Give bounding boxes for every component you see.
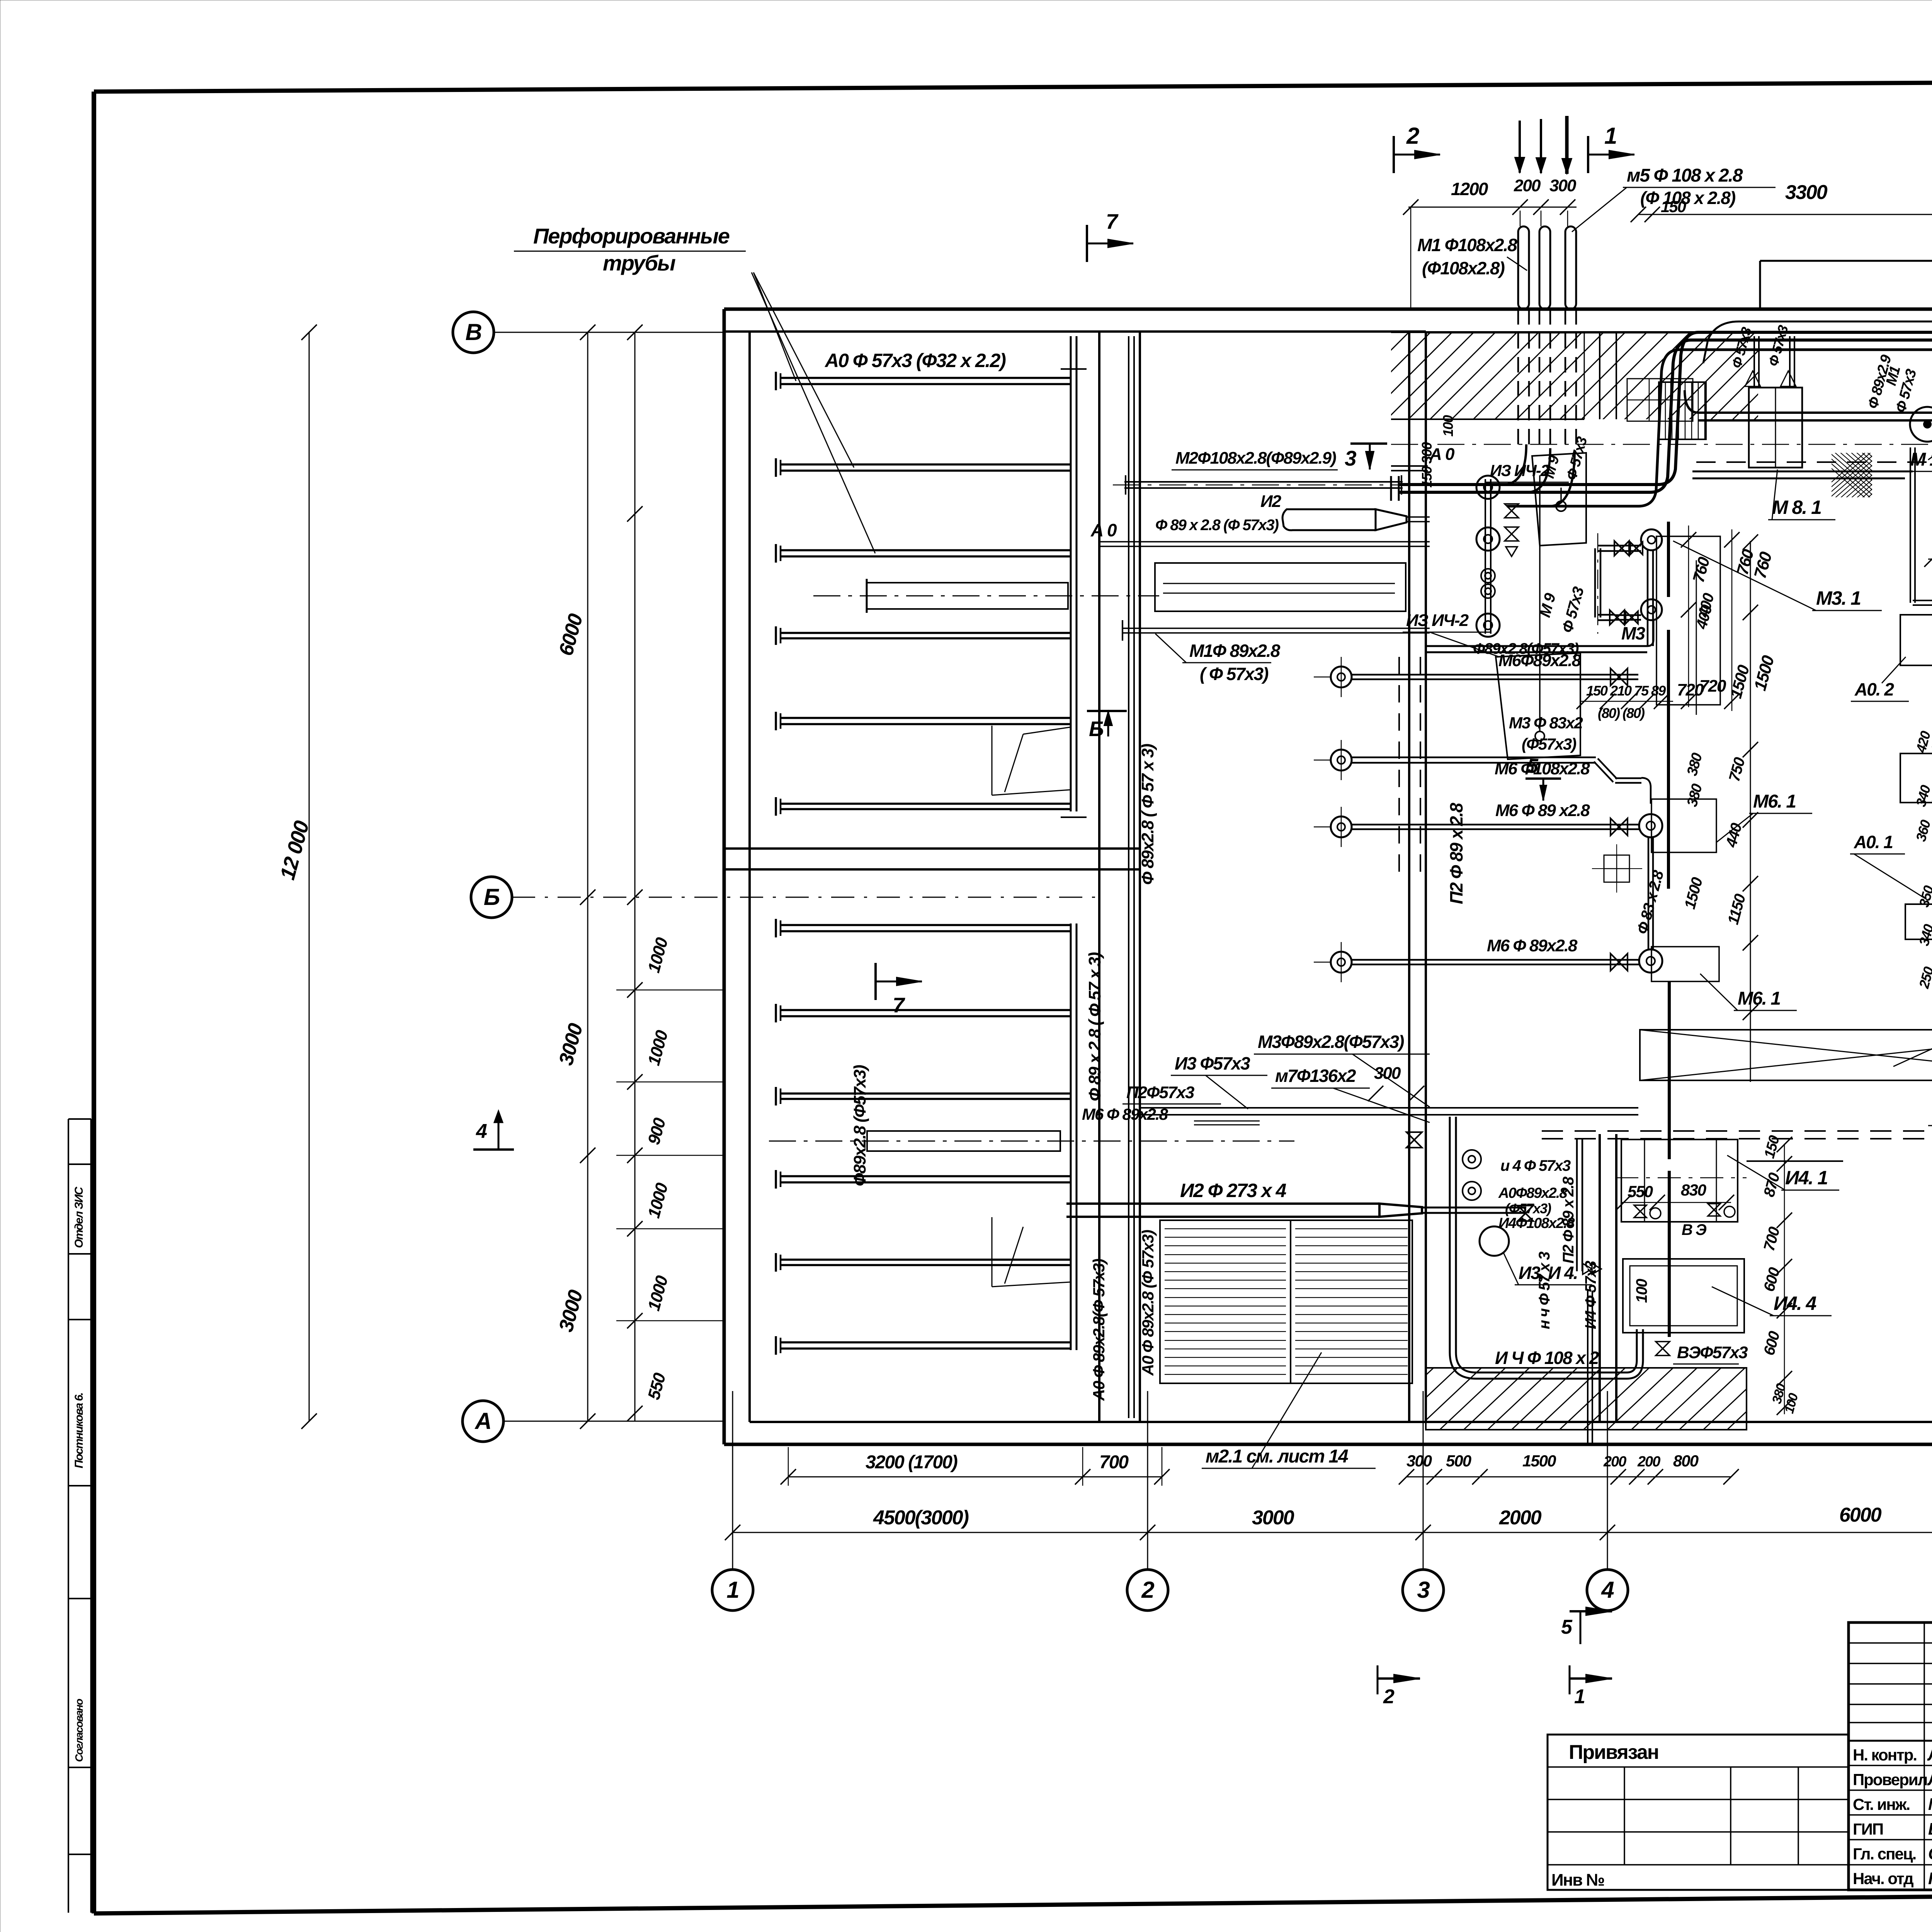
svg-text:М3Ф89х2.8(Ф57х3): М3Ф89х2.8(Ф57х3) bbox=[1258, 1032, 1404, 1052]
П2 drop pipe bbox=[1576, 1139, 1578, 1271]
М6 vertical pipe bbox=[1648, 837, 1650, 951]
svg-text:А0 Ф 89х2.8(Ф 57х3): А0 Ф 89х2.8(Ф 57х3) bbox=[1090, 1259, 1108, 1401]
М6.1 box upper bbox=[1651, 799, 1716, 852]
svg-text:(Ф 108 х 2.8): (Ф 108 х 2.8) bbox=[1640, 188, 1735, 208]
riser U-bends bbox=[1503, 444, 1526, 485]
svg-text:800: 800 bbox=[1673, 1452, 1699, 1470]
svg-text:550: 550 bbox=[644, 1371, 669, 1401]
svg-text:М3 Ф 83х2: М3 Ф 83х2 bbox=[1509, 714, 1583, 732]
svg-text:1500: 1500 bbox=[1726, 663, 1753, 700]
svg-text:1500: 1500 bbox=[1522, 1452, 1556, 1470]
М1.1 pump left circle bbox=[1910, 407, 1932, 442]
svg-text:И4. 4: И4. 4 bbox=[1774, 1293, 1816, 1314]
svg-text:100: 100 bbox=[1633, 1279, 1650, 1303]
axis А line bbox=[503, 1421, 724, 1422]
svg-text:440: 440 bbox=[1723, 821, 1745, 850]
wall hatch grid piece bbox=[1627, 379, 1693, 421]
top dim chain 3300 bbox=[1638, 214, 1932, 215]
svg-text:ГИП: ГИП bbox=[1853, 1820, 1883, 1838]
left attach table bbox=[1548, 1735, 1849, 1890]
cluster valves bbox=[1505, 504, 1519, 518]
И4.4 box bbox=[1623, 1259, 1744, 1333]
М3 valves bbox=[1614, 541, 1629, 556]
svg-text:И4Ф108х2.8: И4Ф108х2.8 bbox=[1498, 1215, 1575, 1231]
svg-text:150 210 75 89: 150 210 75 89 bbox=[1586, 683, 1666, 699]
axis 4 circle bbox=[1587, 1570, 1628, 1611]
svg-text:6000: 6000 bbox=[1839, 1504, 1882, 1526]
svg-text:1200: 1200 bbox=[1451, 179, 1488, 199]
bottom hatch strip middle bbox=[1426, 1368, 1747, 1430]
М9 thin pipe bbox=[1539, 475, 1541, 732]
lower tank perforated pipes bbox=[781, 930, 1070, 932]
section flag 1 top bbox=[1587, 136, 1589, 173]
svg-text:Согласовано: Согласовано bbox=[73, 1699, 85, 1762]
svg-text:М1Ф 89х2.8: М1Ф 89х2.8 bbox=[1189, 641, 1281, 661]
svg-text:трубы: трубы bbox=[603, 251, 675, 275]
svg-text:(80) (80): (80) (80) bbox=[1598, 705, 1645, 721]
vertical pipe along wall2 bbox=[1128, 336, 1129, 1418]
svg-text:П2 Ф 89 х 2.8: П2 Ф 89 х 2.8 bbox=[1446, 803, 1466, 904]
svg-text:Отдел ЗИС: Отдел ЗИС bbox=[73, 1186, 85, 1248]
bottom wall bbox=[724, 1443, 1932, 1446]
tank divider wall vertical bbox=[1098, 332, 1100, 1422]
svg-text:М 8. 1: М 8. 1 bbox=[1772, 497, 1821, 518]
svg-text:А0 Ф 89х2.8 (Ф 57х3): А0 Ф 89х2.8 (Ф 57х3) bbox=[1139, 1230, 1157, 1376]
section flag 4 left bbox=[473, 1148, 514, 1151]
axis Б circle bbox=[471, 877, 512, 918]
axis В line bbox=[494, 332, 724, 333]
svg-text:Ф 83 х 2.8: Ф 83 х 2.8 bbox=[1634, 868, 1667, 936]
axis4 wall upper bbox=[1599, 332, 1600, 419]
corridor pipe B bbox=[1507, 350, 1932, 506]
svg-text:М6 Ф 89 х2.8: М6 Ф 89 х2.8 bbox=[1495, 801, 1590, 820]
svg-text:ВЭФ57х3: ВЭФ57х3 bbox=[1677, 1343, 1748, 1362]
left dim chain 6000/3000/3000 bbox=[587, 332, 588, 1421]
svg-text:(Ф108х2.8): (Ф108х2.8) bbox=[1422, 258, 1505, 278]
svg-text:3200 (1700): 3200 (1700) bbox=[866, 1452, 957, 1473]
М9 thin pipe bbox=[1560, 488, 1562, 501]
svg-text:М2Ф108х2.8(Ф89х2.9): М2Ф108х2.8(Ф89х2.9) bbox=[1175, 449, 1336, 468]
svg-text:300: 300 bbox=[1406, 1452, 1432, 1470]
М8 chute bbox=[1749, 388, 1802, 468]
svg-text:2: 2 bbox=[1141, 1577, 1154, 1603]
svg-text:4: 4 bbox=[476, 1120, 487, 1143]
svg-text:Ф89х2.8 (Ф57х3): Ф89х2.8 (Ф57х3) bbox=[850, 1065, 869, 1186]
grate m2.1 bbox=[1160, 1220, 1412, 1383]
svg-text:2000: 2000 bbox=[1499, 1507, 1542, 1529]
pump unit А0.2 box bbox=[1900, 615, 1932, 665]
middle trough bbox=[1155, 563, 1406, 611]
mid dim chain 2 bbox=[1696, 560, 1697, 715]
axis В circle bbox=[453, 312, 494, 353]
svg-text:м7Ф136х2: м7Ф136х2 bbox=[1275, 1066, 1356, 1086]
svg-text:М6. 1: М6. 1 bbox=[1738, 988, 1780, 1009]
bottom dim chain mid bbox=[1406, 1476, 1731, 1478]
svg-text:И2: И2 bbox=[1260, 492, 1282, 511]
svg-text:3000: 3000 bbox=[555, 1287, 587, 1334]
svg-text:А0Ф89х2.8: А0Ф89х2.8 bbox=[1498, 1185, 1568, 1201]
corridor left pipes bbox=[1427, 468, 1429, 469]
svg-text:Ф 89х2.8 ( Ф 57 х 3): Ф 89х2.8 ( Ф 57 х 3) bbox=[1138, 744, 1157, 885]
svg-text:200: 200 bbox=[1603, 1454, 1626, 1470]
М6 row 3 bbox=[1331, 816, 1352, 837]
axis 4 line bbox=[1607, 1391, 1608, 1570]
svg-text:А0. 2: А0. 2 bbox=[1854, 679, 1894, 699]
svg-text:И3 Ф57х3: И3 Ф57х3 bbox=[1175, 1053, 1250, 1073]
М3 left loop pipe bbox=[1594, 548, 1596, 617]
ИЗ box bbox=[1532, 453, 1586, 546]
axis 1 circle bbox=[712, 1570, 753, 1611]
svg-text:Лушихина: Лушихина bbox=[1927, 1745, 1932, 1764]
svg-text:Привязан: Привязан bbox=[1569, 1741, 1658, 1764]
svg-text:(Ф57х3): (Ф57х3) bbox=[1522, 735, 1576, 753]
svg-text:А: А bbox=[474, 1408, 491, 1434]
svg-text:380: 380 bbox=[1684, 751, 1706, 777]
svg-text:Ф 89 х 2.8 ( Ф 57 х 3): Ф 89 х 2.8 ( Ф 57 х 3) bbox=[1085, 952, 1104, 1101]
svg-text:Н. контр.: Н. контр. bbox=[1853, 1746, 1917, 1764]
svg-text:М1 Ф108х2.8: М1 Ф108х2.8 bbox=[1417, 235, 1517, 255]
svg-text:Перфорированные: Перфорированные bbox=[533, 224, 730, 248]
wall hug pipe bundle bbox=[1739, 321, 1932, 323]
svg-text:Ф 57х3: Ф 57х3 bbox=[1559, 585, 1587, 634]
axis 3 circle bbox=[1403, 1570, 1444, 1611]
svg-text:3: 3 bbox=[1417, 1577, 1430, 1603]
svg-text:150 300: 150 300 bbox=[1419, 442, 1435, 488]
М6 row 4 bbox=[1331, 952, 1352, 973]
svg-text:200: 200 bbox=[1514, 176, 1541, 195]
upper tank trough pipe bbox=[867, 583, 1068, 609]
svg-text:н ч Ф 57 х 3: н ч Ф 57 х 3 bbox=[1536, 1252, 1553, 1329]
title block grid bbox=[1849, 1622, 1932, 1890]
svg-text:М3: М3 bbox=[1621, 623, 1645, 643]
svg-text:ИЗ ИЧ-2: ИЗ ИЧ-2 bbox=[1406, 611, 1469, 630]
svg-text:Бондаренко: Бондаренко bbox=[1928, 1820, 1932, 1838]
svg-text:250: 250 bbox=[1916, 965, 1932, 990]
section flag 2 top bbox=[1393, 136, 1395, 173]
pipe y1405 bbox=[1099, 546, 1430, 547]
top dim chain risers bbox=[1408, 207, 1577, 208]
svg-text:( Ф 57х3): ( Ф 57х3) bbox=[1200, 664, 1268, 684]
svg-text:м5 Ф 108 х 2.8: м5 Ф 108 х 2.8 bbox=[1627, 165, 1743, 186]
svg-text:1500: 1500 bbox=[1681, 876, 1706, 911]
svg-text:100: 100 bbox=[1440, 415, 1456, 437]
svg-text:500: 500 bbox=[1446, 1452, 1471, 1470]
sheet frame border bbox=[92, 92, 96, 1913]
И2 lug device bbox=[1282, 509, 1376, 530]
svg-text:3000: 3000 bbox=[555, 1021, 587, 1068]
svg-text:7: 7 bbox=[1106, 209, 1119, 233]
svg-text:900: 900 bbox=[644, 1116, 669, 1146]
М3 circles bbox=[1641, 529, 1662, 550]
М3.1 box bbox=[1656, 536, 1720, 705]
svg-text:П2Ф57х3: П2Ф57х3 bbox=[1126, 1083, 1194, 1102]
svg-text:720: 720 bbox=[1699, 677, 1726, 696]
svg-text:340: 340 bbox=[1916, 922, 1932, 947]
risers 3 vertical bbox=[1518, 226, 1529, 309]
ИЗ box bbox=[1496, 653, 1580, 759]
svg-text:М6. 1: М6. 1 bbox=[1753, 791, 1796, 812]
axis Б line bbox=[512, 897, 1099, 898]
svg-text:150: 150 bbox=[1761, 1134, 1783, 1160]
svg-text:2: 2 bbox=[1406, 123, 1419, 149]
И4 loop pipe bbox=[1449, 1117, 1451, 1352]
И4 wall circles bbox=[1463, 1150, 1481, 1168]
svg-text:Ф 57х3: Ф 57х3 bbox=[1765, 323, 1791, 368]
left dim chain detail bbox=[634, 332, 636, 1421]
svg-text:Гольдман: Гольдман bbox=[1928, 1869, 1932, 1888]
svg-text:750: 750 bbox=[1726, 756, 1748, 784]
small valve П2 bbox=[1406, 1132, 1422, 1148]
М3 heavy centerline bbox=[1667, 522, 1670, 597]
wall hatch top band bbox=[1287, 325, 1893, 433]
svg-text:1: 1 bbox=[726, 1577, 738, 1603]
corridor hidden dashed bbox=[1696, 461, 1932, 463]
svg-text:1: 1 bbox=[1604, 123, 1616, 149]
svg-text:М6 Ф 89х2.8: М6 Ф 89х2.8 bbox=[1487, 936, 1578, 955]
И2 big pipe bbox=[1066, 1216, 1379, 1218]
svg-text:7: 7 bbox=[893, 993, 905, 1017]
svg-text:830: 830 bbox=[1681, 1181, 1706, 1199]
mid dim chain bbox=[1750, 541, 1751, 1082]
svg-text:2: 2 bbox=[1383, 1685, 1395, 1708]
corridor branch 1220 bbox=[1692, 471, 1913, 473]
riser arrows bbox=[1519, 121, 1521, 173]
svg-text:Постникова 6.: Постникова 6. bbox=[73, 1393, 85, 1468]
svg-text:1000: 1000 bbox=[644, 1028, 672, 1068]
svg-text:И2 Ф 273 х 4: И2 Ф 273 х 4 bbox=[1180, 1180, 1286, 1201]
svg-text:760: 760 bbox=[1689, 555, 1713, 585]
svg-text:3: 3 bbox=[1345, 446, 1356, 470]
feed pipe to А0.2 bbox=[1910, 447, 1911, 603]
svg-text:1500: 1500 bbox=[1750, 653, 1778, 693]
И4Ф57х3 drop pipe bbox=[1587, 1291, 1588, 1444]
overall 12000 dim line bbox=[309, 332, 310, 1421]
bottom dim chain left bbox=[788, 1476, 1162, 1478]
cluster small circles bbox=[1481, 569, 1495, 583]
svg-text:350: 350 bbox=[1916, 884, 1932, 909]
svg-text:Ф89х2.8(Ф57х3): Ф89х2.8(Ф57х3) bbox=[1473, 640, 1579, 657]
svg-text:М6 Ф 89х2.8: М6 Ф 89х2.8 bbox=[1082, 1105, 1168, 1123]
svg-text:200: 200 bbox=[1637, 1454, 1660, 1470]
svg-text:Сирота: Сирота bbox=[1928, 1844, 1932, 1863]
svg-text:300: 300 bbox=[1549, 176, 1577, 195]
axis А circle bbox=[463, 1401, 503, 1442]
svg-text:4: 4 bbox=[1601, 1577, 1614, 1603]
svg-text:700: 700 bbox=[1099, 1452, 1129, 1473]
lower tank trough pipe bbox=[867, 1131, 1060, 1151]
svg-text:Инв №: Инв № bbox=[1551, 1871, 1604, 1889]
svg-text:720: 720 bbox=[1677, 680, 1704, 699]
svg-text:(Ф57х3): (Ф57х3) bbox=[1505, 1201, 1551, 1216]
axis 2 line bbox=[1147, 1391, 1148, 1570]
svg-text:В Э: В Э bbox=[1682, 1221, 1707, 1238]
tank window upper bbox=[992, 726, 993, 795]
pipe y1630 bbox=[1122, 632, 1430, 634]
corridor centerline bbox=[1391, 444, 1932, 445]
checkered square mid bbox=[1604, 855, 1629, 882]
svg-text:В: В bbox=[465, 319, 481, 345]
svg-text:700: 700 bbox=[1760, 1225, 1783, 1253]
svg-text:6000: 6000 bbox=[555, 611, 587, 658]
svg-text:И Ч Ф 108 х 2: И Ч Ф 108 х 2 bbox=[1495, 1348, 1599, 1368]
svg-text:А0 Ф 57х3 (Ф32 х 2.2): А0 Ф 57х3 (Ф32 х 2.2) bbox=[824, 350, 1006, 371]
svg-text:А 0: А 0 bbox=[1090, 520, 1117, 540]
svg-text:м2.1 см. лист 14: м2.1 см. лист 14 bbox=[1206, 1446, 1348, 1467]
М2 pipe bbox=[1124, 487, 1403, 489]
М6 row 2 bbox=[1331, 750, 1352, 770]
cluster flanged circle y1618 bbox=[1476, 614, 1500, 637]
svg-text:550: 550 bbox=[1628, 1182, 1653, 1201]
И3И4 pump circle bbox=[1480, 1226, 1509, 1256]
svg-text:М3. 1: М3. 1 bbox=[1816, 587, 1861, 609]
cluster flanged circle y1261 bbox=[1476, 476, 1500, 499]
axis 2 circle bbox=[1127, 1570, 1168, 1611]
svg-text:600: 600 bbox=[1760, 1330, 1783, 1357]
section flag 3 left bbox=[1350, 442, 1387, 445]
svg-text:300: 300 bbox=[1374, 1064, 1401, 1083]
corridor branch 1080 bbox=[1699, 412, 1932, 414]
svg-text:380: 380 bbox=[1684, 782, 1706, 808]
М3 feed pipe bbox=[1426, 651, 1647, 653]
svg-text:и 4 Ф 57х3: и 4 Ф 57х3 bbox=[1500, 1157, 1571, 1174]
svg-text:А0. 1: А0. 1 bbox=[1854, 832, 1893, 852]
svg-text:3300: 3300 bbox=[1785, 181, 1828, 204]
svg-text:870: 870 bbox=[1760, 1171, 1783, 1199]
svg-text:4500(3000): 4500(3000) bbox=[873, 1507, 969, 1529]
corridor pipe A bbox=[1399, 332, 1932, 485]
И4.1 box bbox=[1621, 1139, 1738, 1222]
crossed box A0.5 bbox=[1640, 1030, 1932, 1080]
svg-text:Б: Б bbox=[484, 884, 500, 910]
section flag 7 top bbox=[1086, 225, 1088, 262]
pipe left stub top bbox=[1391, 470, 1428, 471]
axis 3 line bbox=[1423, 1391, 1424, 1570]
top wall parapet bbox=[1760, 260, 1932, 262]
svg-text:Нач. отд: Нач. отд bbox=[1853, 1869, 1913, 1888]
pump unit А0.1 box bbox=[1905, 904, 1932, 939]
section flag Б mid bbox=[1087, 710, 1127, 712]
М3 pipes bbox=[1615, 550, 1641, 552]
svg-text:И4 Ф 57х3: И4 Ф 57х3 bbox=[1582, 1261, 1599, 1329]
axis3 wall bbox=[1408, 332, 1410, 1422]
svg-text:12 000: 12 000 bbox=[276, 818, 314, 882]
И4 valves top bbox=[1634, 1205, 1646, 1218]
louver band bbox=[1659, 382, 1706, 439]
svg-text:600: 600 bbox=[1760, 1266, 1783, 1294]
axis 1 line bbox=[732, 1391, 733, 1570]
crosshatch patch bbox=[1808, 448, 1932, 502]
И4 right dim chain bbox=[1784, 1144, 1785, 1414]
П2 dashed pipe bbox=[1542, 1130, 1932, 1132]
М6.1 box lower bbox=[1651, 947, 1719, 981]
svg-text:Ст. инж.: Ст. инж. bbox=[1853, 1795, 1910, 1813]
П2 in-wall pipe bbox=[1409, 580, 1410, 1121]
pump unit mid box bbox=[1900, 753, 1932, 803]
svg-text:420: 420 bbox=[1913, 729, 1932, 755]
tank window lower bbox=[992, 1217, 993, 1287]
svg-text:5: 5 bbox=[1561, 1616, 1573, 1638]
svg-text:1: 1 bbox=[1574, 1685, 1585, 1708]
section flag 7 bottom bbox=[874, 963, 877, 1000]
svg-text:1000: 1000 bbox=[644, 1181, 672, 1220]
cluster flanged circle y1395 bbox=[1476, 527, 1500, 551]
top wall bbox=[724, 308, 1932, 311]
svg-text:Лушихина: Лушихина bbox=[1927, 1770, 1932, 1789]
svg-text:М6 Ф108х2.8: М6 Ф108х2.8 bbox=[1495, 759, 1590, 778]
svg-text:1000: 1000 bbox=[644, 935, 672, 975]
svg-text:Машникова: Машникова bbox=[1928, 1795, 1932, 1814]
left wall bbox=[723, 309, 726, 1444]
svg-text:3000: 3000 bbox=[1252, 1507, 1294, 1529]
svg-text:1150: 1150 bbox=[1725, 892, 1749, 926]
cluster vertical pipe bbox=[1485, 479, 1486, 634]
left margin stamp table bbox=[68, 1119, 69, 1913]
svg-text:И4. 1: И4. 1 bbox=[1785, 1167, 1828, 1189]
М6 row 1 bbox=[1331, 667, 1352, 687]
upper tank perforated pipes bbox=[781, 383, 1070, 385]
svg-text:Ф 89 х 2.8 (Ф 57х3): Ф 89 х 2.8 (Ф 57х3) bbox=[1155, 517, 1279, 534]
svg-text:Гл. спец.: Гл. спец. bbox=[1853, 1845, 1916, 1863]
svg-text:Б: Б bbox=[1089, 717, 1103, 741]
svg-text:Проверил: Проверил bbox=[1853, 1770, 1927, 1789]
И4 heavy centerline bbox=[1668, 981, 1671, 1159]
bottom main dim chain bbox=[733, 1532, 1932, 1533]
axis4 wall lower bbox=[1599, 1134, 1601, 1422]
svg-text:1000: 1000 bbox=[644, 1274, 672, 1313]
М7 pipe bundle bbox=[1140, 1114, 1638, 1116]
tank mid wall horizontal bbox=[724, 847, 1140, 850]
